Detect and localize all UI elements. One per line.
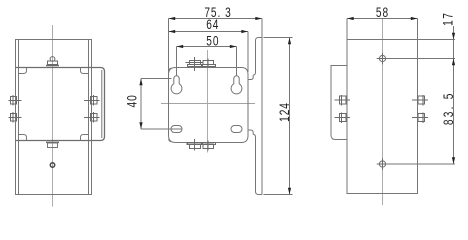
svg-text:124: 124: [276, 102, 292, 122]
svg-text:50: 50: [206, 33, 219, 49]
svg-text:40: 40: [124, 94, 140, 107]
svg-text:17: 17: [440, 12, 456, 26]
svg-text:83. 5: 83. 5: [440, 91, 456, 125]
svg-text:58: 58: [376, 5, 389, 21]
svg-text:64: 64: [206, 16, 219, 32]
